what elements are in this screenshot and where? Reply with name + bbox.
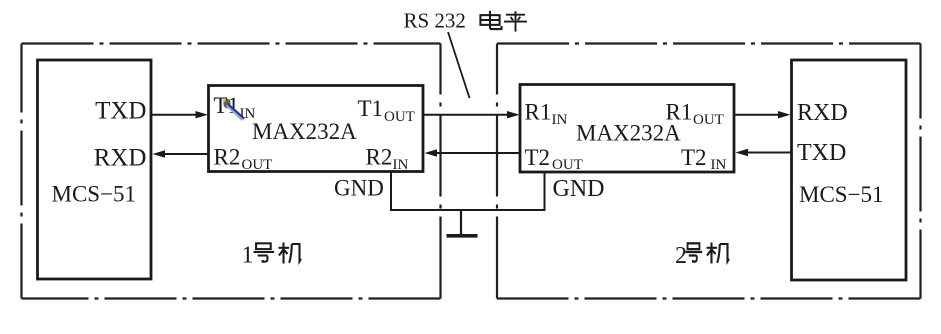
wire GND bus xyxy=(390,209,546,211)
MCS-51 box (left, 1号机) xyxy=(38,60,152,279)
svg-text:IN: IN xyxy=(711,157,727,173)
annotation artifact: smudge over the 1 xyxy=(223,99,230,109)
svg-text:OUT: OUT xyxy=(552,157,583,173)
svg-text:T1: T1 xyxy=(358,96,384,121)
svg-text:OUT: OUT xyxy=(384,109,415,125)
annotation artifact: yellow dot xyxy=(223,98,226,101)
wire T2OUT to R2IN with arrow (crosses enclosures) xyxy=(437,152,520,154)
svg-text:T2: T2 xyxy=(681,145,707,170)
svg-text:RS 232: RS 232 xyxy=(404,9,466,33)
MCS-51 box (right, 2号机) xyxy=(792,60,907,280)
ground symbol xyxy=(447,210,478,236)
enclosure box 1 (1号机) dash-dot border xyxy=(22,44,441,299)
MAX232A box (right) xyxy=(520,85,734,173)
svg-text:TXD: TXD xyxy=(95,98,146,125)
svg-text:R2: R2 xyxy=(214,144,241,169)
svg-text:T2: T2 xyxy=(525,145,551,170)
svg-text:OUT: OUT xyxy=(693,112,724,128)
CJK glyph 平 xyxy=(504,11,527,31)
wire GND drop (left MAX232A) xyxy=(390,172,392,211)
svg-text:MCS−51: MCS−51 xyxy=(799,182,884,207)
svg-text:GND: GND xyxy=(334,175,384,200)
svg-text:IN: IN xyxy=(393,157,409,173)
wire T1OUT to R1IN with arrow (crosses enclosures) xyxy=(423,114,508,116)
svg-text:IN: IN xyxy=(552,112,568,128)
wire TXD to T1IN with arrow xyxy=(151,114,197,116)
wire R1OUT to RXD with arrow xyxy=(734,114,779,116)
MAX232A box (left) xyxy=(209,86,424,172)
svg-text:RXD: RXD xyxy=(94,144,147,171)
CJK glyph 电 xyxy=(480,11,501,29)
wire R2OUT to RXD with arrow xyxy=(165,153,209,155)
CJK glyph 号 (2号机) xyxy=(685,243,702,261)
CJK glyph 机 (1号机) xyxy=(279,243,302,264)
CJK glyph 号 (1号机) xyxy=(254,243,275,261)
leader line from label to RS-232 wires xyxy=(448,32,470,98)
svg-text:R1: R1 xyxy=(525,100,552,125)
svg-text:2: 2 xyxy=(675,243,687,269)
annotation artifact: blue pen slash xyxy=(228,106,242,119)
svg-text:R1: R1 xyxy=(666,100,693,125)
svg-text:R2: R2 xyxy=(366,144,393,169)
svg-text:GND: GND xyxy=(553,176,605,202)
svg-text:MAX232A: MAX232A xyxy=(252,119,357,144)
wire GND drop (right MAX232A) xyxy=(544,172,546,210)
svg-text:1: 1 xyxy=(242,243,254,269)
CJK glyph 机 (2号机) xyxy=(707,243,730,264)
svg-text:MCS−51: MCS−51 xyxy=(52,181,137,206)
svg-text:TXD: TXD xyxy=(797,140,846,166)
wire TXD to T2IN with arrow xyxy=(748,152,792,154)
svg-text:OUT: OUT xyxy=(242,157,273,173)
svg-text:RXD: RXD xyxy=(797,100,848,126)
enclosure box 2 (2号机) dash-dot border xyxy=(497,44,921,299)
